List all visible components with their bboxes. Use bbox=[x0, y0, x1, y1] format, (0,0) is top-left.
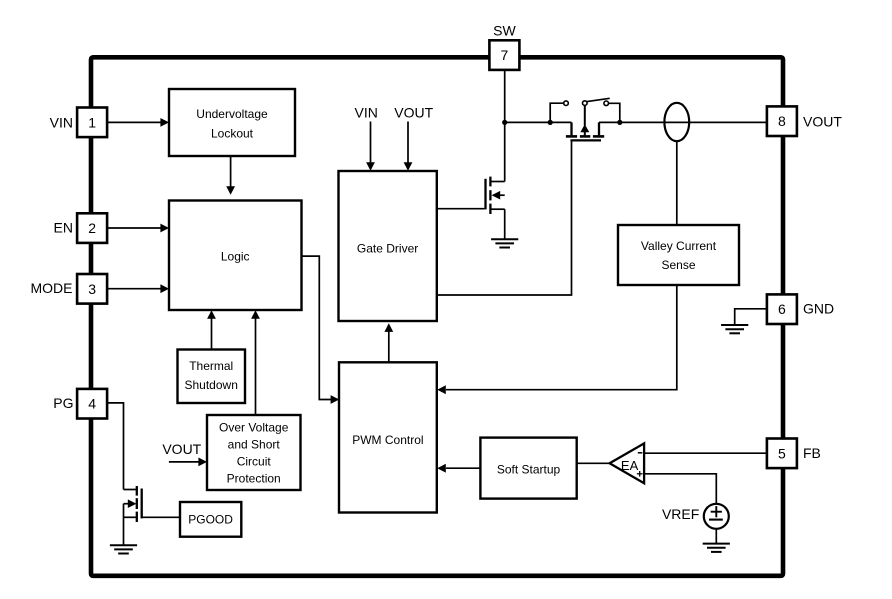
svg-text:VIN: VIN bbox=[355, 104, 378, 120]
wire pin1 to Undervoltage Lockout bbox=[107, 118, 169, 127]
svg-text:and Short: and Short bbox=[228, 438, 281, 452]
svg-text:1: 1 bbox=[88, 114, 96, 130]
block Over Voltage and Short Circuit Protection bbox=[207, 415, 301, 490]
wire pin4 PG to Q3 drain bbox=[107, 403, 124, 490]
svg-text:EA: EA bbox=[621, 458, 639, 473]
node VREF label bbox=[662, 506, 699, 522]
svg-text:6: 6 bbox=[778, 301, 786, 317]
svg-text:3: 3 bbox=[88, 281, 96, 297]
pin 8 VOUT bbox=[767, 106, 797, 136]
svg-text:SW: SW bbox=[493, 23, 516, 39]
svg-text:Soft Startup: Soft Startup bbox=[497, 462, 561, 476]
svg-text:VOUT: VOUT bbox=[803, 113, 842, 129]
svg-text:Lockout: Lockout bbox=[211, 127, 254, 141]
current sense loop bbox=[664, 103, 689, 141]
label FB pin5 bbox=[803, 445, 821, 461]
svg-text:4: 4 bbox=[88, 396, 96, 412]
wire VREF to EA non-inverting input bbox=[644, 474, 716, 504]
svg-text:Undervoltage: Undervoltage bbox=[196, 107, 268, 121]
svg-text:GND: GND bbox=[803, 301, 834, 317]
wire Logic to PWM Control bbox=[302, 256, 340, 404]
svg-text:PGOOD: PGOOD bbox=[188, 513, 233, 527]
svg-text:PG: PG bbox=[53, 395, 73, 411]
transistor Q1 low-side NMOS bbox=[486, 177, 505, 240]
source VREF reference bbox=[704, 504, 729, 529]
svg-text:VREF: VREF bbox=[662, 506, 699, 522]
wire pin5 FB to EA inverting input bbox=[644, 452, 767, 454]
block Logic bbox=[169, 201, 302, 311]
wire current sense to Valley Current Sense block bbox=[676, 142, 678, 225]
block Soft Startup bbox=[480, 438, 576, 499]
op-amp EA error amplifier bbox=[610, 443, 645, 483]
junction Q2 left node bbox=[548, 120, 553, 125]
svg-text:Sense: Sense bbox=[661, 258, 695, 272]
wire VOUT to Over Voltage Protection bbox=[169, 458, 207, 467]
svg-text:MODE: MODE bbox=[31, 280, 73, 296]
block Gate Driver bbox=[339, 171, 437, 321]
block PWM Control bbox=[339, 362, 437, 512]
wire VOUT to Gate Driver bbox=[404, 122, 413, 171]
wire Undervoltage Lockout to Logic bbox=[226, 156, 235, 195]
svg-text:VOUT: VOUT bbox=[394, 104, 433, 120]
wire VIN to Gate Driver bbox=[366, 122, 375, 171]
pin 1 VIN bbox=[77, 108, 107, 138]
svg-text:5: 5 bbox=[778, 445, 786, 461]
svg-text:EN: EN bbox=[54, 219, 73, 235]
block Undervoltage Lockout bbox=[169, 89, 295, 156]
wire PWM Control to Gate Driver bbox=[384, 323, 393, 362]
IC boundary box bbox=[91, 57, 783, 576]
svg-text:VOUT: VOUT bbox=[162, 441, 201, 457]
svg-text:2: 2 bbox=[88, 220, 96, 236]
svg-text:Gate Driver: Gate Driver bbox=[357, 242, 418, 256]
wire PGOOD to Q3 gate bbox=[142, 516, 180, 518]
node VIN label above Gate Driver bbox=[355, 104, 378, 120]
junction Q2 right node bbox=[617, 120, 622, 125]
label VOUT pin8 bbox=[803, 113, 842, 129]
wire Q2 right terminal to pin8 bbox=[599, 121, 767, 123]
label MODE pin3 bbox=[31, 280, 73, 296]
svg-text:Over Voltage: Over Voltage bbox=[219, 421, 289, 435]
svg-text:Thermal: Thermal bbox=[189, 359, 233, 373]
ground at Q1 source bbox=[491, 239, 518, 247]
wire Gate Driver to Q1 gate bbox=[437, 208, 485, 210]
junction SW node bbox=[502, 120, 507, 125]
svg-text:PWM Control: PWM Control bbox=[352, 433, 423, 447]
svg-text:Valley Current: Valley Current bbox=[641, 239, 717, 253]
transistor Q2 pass FET bbox=[566, 105, 604, 140]
wire Over Voltage Protection to Logic bbox=[251, 310, 260, 415]
pin 7 SW bbox=[489, 40, 519, 70]
label EN pin2 bbox=[54, 219, 73, 235]
node VOUT label above Gate Driver bbox=[394, 104, 433, 120]
block PGOOD bbox=[180, 502, 241, 537]
svg-text:FB: FB bbox=[803, 445, 821, 461]
label SW pin7 bbox=[493, 23, 516, 39]
svg-text:Circuit: Circuit bbox=[237, 455, 272, 469]
pin 2 EN bbox=[77, 213, 107, 243]
wire SW node to Q2 left terminal bbox=[505, 121, 572, 123]
ground at VREF bbox=[703, 544, 730, 552]
wire Gate Driver to Q2 gate bbox=[437, 140, 572, 295]
pin 4 PG bbox=[77, 389, 107, 419]
ground at pin6 GND bbox=[721, 325, 748, 333]
wire Valley Current Sense to PWM Control bbox=[437, 285, 677, 394]
wire Thermal Shutdown to Logic bbox=[207, 310, 216, 349]
label GND pin6 bbox=[803, 301, 834, 317]
pin 3 MODE bbox=[77, 274, 107, 304]
svg-text:7: 7 bbox=[501, 47, 509, 63]
wire pin2 to Logic bbox=[107, 224, 169, 233]
label PG pin4 bbox=[53, 395, 73, 411]
svg-text:VIN: VIN bbox=[50, 114, 73, 130]
svg-text:Protection: Protection bbox=[227, 472, 281, 486]
wire pin7 SW to Q1 drain bbox=[504, 70, 506, 182]
block Thermal Shutdown bbox=[178, 350, 246, 404]
node VOUT label at protection input bbox=[162, 441, 201, 457]
transistor Q3 PGOOD open-drain NMOS bbox=[124, 486, 142, 545]
svg-text:Logic: Logic bbox=[221, 250, 250, 264]
svg-text:8: 8 bbox=[778, 113, 786, 129]
label VIN pin1 bbox=[50, 114, 73, 130]
wire pin6 GND to ground bbox=[735, 309, 768, 325]
pin 5 FB bbox=[767, 439, 797, 469]
pin 6 GND bbox=[767, 294, 797, 324]
wire Soft Startup to PWM Control bbox=[437, 464, 480, 473]
svg-text:Shutdown: Shutdown bbox=[185, 378, 238, 392]
wire VREF source to ground bbox=[715, 529, 717, 544]
wire pin3 to Logic bbox=[107, 284, 169, 293]
ground at Q3 source bbox=[110, 545, 137, 553]
wire EA output to Soft Startup bbox=[577, 462, 610, 464]
switch SW1 body select bbox=[550, 98, 620, 122]
block Valley Current Sense bbox=[618, 225, 739, 285]
